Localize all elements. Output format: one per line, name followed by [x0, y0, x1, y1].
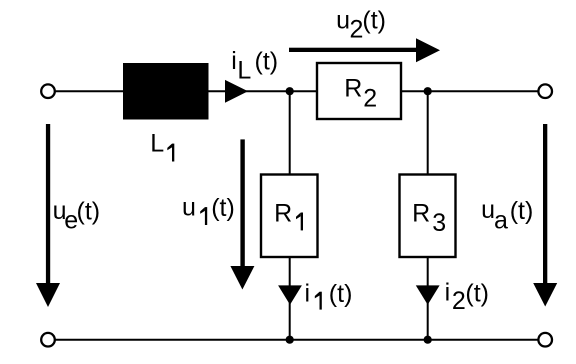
svg-text:R: R: [344, 75, 362, 103]
svg-text:i: i: [305, 280, 311, 308]
svg-text:(t): (t): [465, 280, 489, 308]
svg-text:(t): (t): [211, 194, 235, 222]
svg-text:2: 2: [350, 16, 364, 44]
svg-text:i: i: [445, 279, 451, 307]
label R2: [344, 75, 377, 113]
label ua(t): [481, 196, 533, 235]
voltage arrow u_1 (down, at R1 left): [230, 139, 254, 289]
svg-text:(t): (t): [362, 6, 386, 34]
label R3: [412, 199, 446, 237]
voltage arrow u_e (down, left side): [36, 124, 60, 307]
svg-text:(t): (t): [255, 48, 279, 76]
label R1: [274, 199, 303, 230]
label ue(t): [53, 197, 101, 235]
svg-text:i: i: [231, 47, 237, 75]
svg-text:a: a: [494, 207, 508, 235]
svg-text:R: R: [412, 199, 430, 227]
inductor L1 (filled block): [123, 63, 209, 120]
svg-text:L: L: [237, 57, 251, 85]
svg-text:2: 2: [452, 287, 466, 315]
svg-text:L: L: [150, 130, 164, 158]
wire node A to R2: [290, 90, 317, 92]
wire bottom rail: [55, 339, 538, 341]
label i2(t): [445, 279, 489, 316]
terminal bottom-right: [538, 333, 552, 347]
svg-text:R: R: [274, 199, 292, 227]
voltage arrow u_2 (right, above R2): [289, 38, 440, 62]
terminal bottom-left: [41, 333, 55, 347]
node B (junction dot top): [424, 87, 432, 95]
svg-text:2: 2: [363, 85, 377, 113]
voltage arrow u_a (down, right side): [533, 124, 557, 307]
svg-text:3: 3: [432, 209, 446, 237]
wire top-middle: L1 to node A: [209, 90, 291, 92]
svg-text:(t): (t): [77, 198, 101, 226]
terminal top-right: [538, 84, 552, 98]
svg-text:(t): (t): [510, 197, 534, 225]
terminal top-left: [41, 84, 55, 98]
wire node A to R1 top: [289, 91, 291, 174]
node A (junction dot top): [286, 87, 294, 95]
current arrow i2 (down, below R3): [416, 285, 440, 304]
wire node B to top-right terminal: [428, 90, 538, 92]
wire node B to R3 top: [427, 91, 429, 174]
wire R1 bottom to bottom rail: [289, 257, 291, 340]
node A' (junction dot bottom rail): [286, 336, 294, 344]
resistor R1: [261, 175, 318, 258]
wire top-left: terminal to L1: [55, 90, 123, 92]
wire R3 bottom to bottom rail: [427, 257, 429, 340]
label u2(t): [336, 6, 386, 43]
wire R2 to node B: [401, 90, 428, 92]
current arrow i1 (down, below R1): [278, 285, 302, 304]
svg-text:(t): (t): [329, 280, 353, 308]
label L1: [150, 130, 174, 162]
label iL(t): [231, 47, 278, 85]
svg-text:u: u: [182, 193, 196, 221]
label u1(t): [182, 193, 235, 225]
svg-text:u: u: [336, 6, 350, 34]
resistor R3: [400, 175, 456, 258]
svg-text:u: u: [481, 196, 495, 224]
resistor R2: [317, 63, 401, 119]
label i1(t): [305, 280, 353, 310]
node B' (junction dot bottom rail): [424, 336, 432, 344]
current arrow iL (triangle on wire): [225, 80, 248, 103]
